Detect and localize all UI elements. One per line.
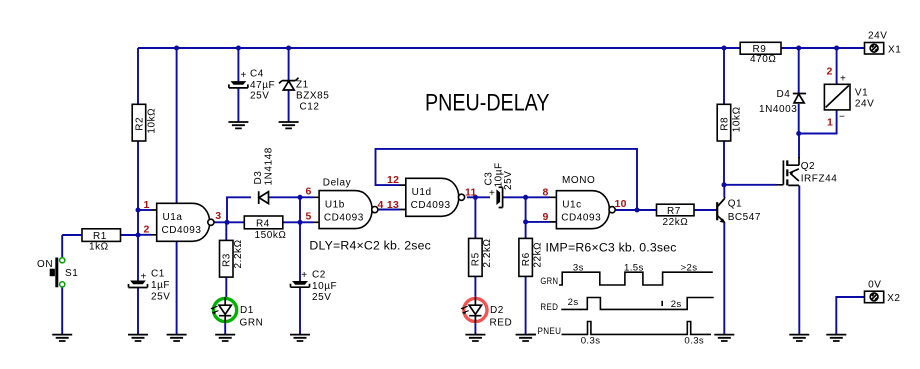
wire U1b pin5 stub — [300, 221, 314, 223]
resistor R1 — [82, 229, 121, 253]
svg-text:2: 2 — [144, 224, 150, 236]
wire pin9 node down to R6 — [525, 222, 527, 239]
svg-text:D1: D1 — [240, 305, 254, 316]
resistor R8 — [717, 104, 742, 141]
svg-text:2.2kΩ: 2.2kΩ — [482, 238, 493, 267]
svg-text:25V: 25V — [151, 292, 170, 303]
svg-text:R3: R3 — [222, 253, 233, 267]
wire U1b output to U1d pin13 — [376, 209, 399, 211]
timing label 2s right with tick — [661, 301, 663, 306]
svg-text:C2: C2 — [312, 270, 326, 281]
ground under C4 — [228, 122, 248, 128]
svg-text:S1: S1 — [65, 268, 78, 279]
op-amp U1d (NAND gate CD4093) — [399, 178, 465, 216]
resistor R2 — [132, 104, 157, 141]
junction rail-U1a — [174, 46, 179, 51]
wire U1c pin9 stub — [526, 221, 550, 223]
terminal X2 — [865, 279, 901, 304]
resistor R4 — [244, 216, 286, 241]
svg-text:R8: R8 — [720, 117, 731, 131]
resistor R5 — [469, 238, 494, 276]
svg-text:3s: 3s — [573, 262, 584, 273]
wire Q1 emitter to ground — [723, 223, 725, 335]
wire C2 to ground — [299, 288, 301, 335]
wire Q1 collector up to gate node — [723, 185, 725, 197]
ground under C1 — [128, 335, 148, 341]
svg-text:DLY=R4×C2 kb. 2sec: DLY=R4×C2 kb. 2sec — [309, 239, 431, 253]
svg-text:RED: RED — [540, 302, 558, 313]
wire C1 to ground — [137, 288, 139, 335]
wire V1 bottom to flyback node — [799, 110, 837, 134]
junction flyback node — [796, 131, 801, 136]
svg-text:24V: 24V — [855, 99, 874, 110]
svg-text:U1c: U1c — [562, 199, 581, 210]
svg-text:2s: 2s — [671, 299, 682, 310]
resistor R7 — [657, 204, 695, 228]
wire Z1 column — [288, 48, 290, 122]
junction rail-R8 — [722, 46, 727, 51]
svg-text:R6: R6 — [521, 252, 532, 266]
transistor Q1 BC547 — [716, 197, 762, 223]
wire R1 right to node — [120, 234, 138, 236]
svg-text:1kΩ: 1kΩ — [89, 242, 109, 253]
terminal X1 — [863, 31, 901, 56]
svg-text:U1a: U1a — [163, 212, 183, 223]
junction rail-Z1 — [286, 46, 291, 51]
diode D4 — [759, 89, 806, 115]
svg-text:11: 11 — [465, 186, 477, 198]
svg-text:2.2kΩ: 2.2kΩ — [233, 239, 244, 268]
svg-text:1: 1 — [144, 199, 150, 211]
wire R8 bottom to node — [723, 141, 725, 185]
svg-text:PNEU: PNEU — [538, 326, 562, 337]
wire R5 to D2 — [474, 276, 476, 297]
svg-text:GRN: GRN — [240, 318, 264, 329]
ground under C2 — [290, 335, 310, 341]
op-amp U1b (NAND gate CD4093) — [314, 191, 378, 229]
wire R4 to pin5 node — [283, 221, 300, 223]
wire 24V top rail — [138, 47, 863, 49]
svg-text:25V: 25V — [250, 91, 269, 102]
pushbutton S1 — [37, 258, 78, 288]
ground under S1 — [52, 335, 72, 341]
wire U1a VDD stub from rail — [176, 48, 178, 203]
svg-text:10µF: 10µF — [312, 281, 337, 292]
wire R6 to ground — [525, 276, 527, 334]
LED D1 — [210, 297, 263, 328]
junction pin5 node — [298, 220, 303, 225]
svg-text:1N4003: 1N4003 — [759, 104, 797, 115]
wire left column from rail to R2 — [137, 48, 139, 105]
svg-text:150kΩ: 150kΩ — [255, 230, 287, 241]
svg-text:D4: D4 — [777, 89, 791, 100]
svg-text:CD4093: CD4093 — [324, 212, 364, 223]
svg-text:+: + — [241, 70, 247, 81]
wire node to Q2 gate — [724, 184, 777, 186]
ground under Q2 — [789, 335, 809, 341]
junction rail-V1 — [834, 46, 839, 51]
capacitor C4 — [229, 69, 275, 102]
wire R3 column from node — [225, 222, 227, 297]
svg-text:CD4093: CD4093 — [561, 212, 601, 223]
diode D3 — [253, 147, 275, 204]
svg-text:10kΩ: 10kΩ — [147, 108, 158, 134]
svg-text:U1b: U1b — [325, 199, 345, 210]
zener Z1 — [279, 78, 329, 113]
junction rail-D4 — [796, 46, 801, 51]
wire C4 column — [237, 48, 239, 122]
wire R7 to Q1 base — [694, 209, 716, 211]
wire R8 top from rail — [723, 48, 725, 104]
op-amp U1c (NAND gate CD4093) — [550, 191, 616, 229]
svg-text:25V: 25V — [503, 171, 514, 190]
svg-text:10kΩ: 10kΩ — [732, 106, 743, 132]
wire S1 to ground — [61, 287, 63, 335]
svg-text:Delay: Delay — [323, 177, 351, 188]
svg-text:0.3s: 0.3s — [684, 336, 704, 347]
svg-text:U1d: U1d — [412, 187, 432, 198]
svg-text:R5: R5 — [471, 252, 482, 266]
timing diagram PNEU waveform — [528, 322, 711, 335]
wire R2 bottom to R1/pin2 node and C1 — [137, 141, 139, 281]
svg-text:22kΩ: 22kΩ — [663, 217, 689, 228]
junction Q1 collector node — [722, 182, 727, 187]
wire D4 column from rail — [798, 48, 800, 93]
wire Q2 source to ground — [798, 185, 800, 334]
wire U1a pin1 stub — [138, 209, 151, 211]
capacitor C2 — [291, 270, 338, 304]
wire D1 to ground — [224, 323, 226, 335]
wire U1c pin8 stub — [526, 196, 550, 198]
svg-text:CD4093: CD4093 — [411, 200, 451, 211]
wire C3 to pin8 node — [503, 196, 526, 198]
ground under Z1 — [279, 122, 299, 128]
svg-text:+: + — [301, 270, 307, 281]
ground under U1a — [167, 335, 187, 341]
svg-text:R4: R4 — [256, 218, 270, 229]
wire U1a output to R3/R4 node — [214, 221, 227, 223]
wire flyback node to Q2 drain — [798, 134, 800, 159]
ground under D1 — [215, 335, 235, 341]
svg-text:Q1: Q1 — [728, 199, 742, 210]
junction rail-C4 — [236, 46, 241, 51]
ground under Q1 — [714, 335, 734, 341]
wire node up to D3 row — [227, 197, 251, 222]
relay V1 — [824, 74, 874, 123]
svg-text:RED: RED — [490, 318, 513, 329]
svg-text:+: + — [141, 272, 147, 283]
svg-text:V1: V1 — [855, 88, 868, 99]
wire D2 to ground — [474, 323, 476, 335]
svg-text:C1: C1 — [151, 269, 165, 280]
svg-text:R2: R2 — [135, 117, 146, 131]
wire U1d out node down to R5 — [474, 197, 476, 238]
resistor R9 — [740, 42, 781, 65]
svg-text:22kΩ: 22kΩ — [532, 242, 543, 268]
svg-text:10: 10 — [615, 198, 627, 210]
wire pin6 node down to C2 — [299, 197, 301, 281]
svg-text:MONO: MONO — [562, 175, 595, 186]
svg-text:Q2: Q2 — [801, 161, 815, 172]
wire U1c output to R7 — [610, 209, 656, 211]
wire V1 top from rail — [836, 48, 838, 84]
wire U1d pin12 feedback loop — [376, 149, 638, 210]
svg-text:−: − — [839, 112, 845, 123]
junction pin8 node — [523, 195, 528, 200]
svg-text:9: 9 — [543, 211, 549, 223]
svg-text:+: + — [489, 188, 495, 199]
resistor R3 — [220, 239, 244, 277]
ground under D2 — [465, 335, 485, 341]
capacitor C3 — [484, 162, 515, 207]
wire X2 to ground — [836, 297, 864, 335]
resistor R6 — [519, 238, 544, 276]
wire node to R4 — [227, 221, 244, 223]
svg-text:R1: R1 — [93, 231, 107, 242]
junction U1c out node — [635, 208, 640, 213]
svg-text:PNEU-DELAY: PNEU-DELAY — [425, 90, 550, 117]
svg-text:1: 1 — [827, 117, 833, 129]
svg-text:ON: ON — [37, 259, 53, 270]
svg-text:BC547: BC547 — [728, 212, 761, 223]
svg-text:6: 6 — [306, 186, 312, 198]
svg-text:BZX85: BZX85 — [296, 91, 329, 102]
junction pin2-R1 — [136, 233, 141, 238]
wire R1 left to S1 — [62, 235, 81, 257]
junction U1d out node — [473, 195, 478, 200]
svg-text:0V: 0V — [868, 279, 881, 290]
ground under X2 — [826, 335, 846, 341]
ground under R6 — [516, 335, 536, 341]
wire D4 anode to flyback node — [798, 104, 800, 134]
svg-text:GRN: GRN — [540, 276, 558, 287]
capacitor C1 — [129, 269, 171, 303]
timing diagram GRN waveform — [559, 272, 713, 285]
transistor Q2 IRFZ44 — [777, 157, 838, 185]
svg-text:25V: 25V — [312, 292, 331, 303]
junction pin9 node — [523, 219, 528, 224]
svg-text:>2s: >2s — [681, 262, 698, 273]
svg-text:IRFZ44: IRFZ44 — [801, 174, 838, 185]
svg-text:IMP=R6×C3 kb. 0.3sec: IMP=R6×C3 kb. 0.3sec — [546, 241, 677, 255]
wire U1a VSS stub to ground — [176, 241, 178, 334]
svg-text:3: 3 — [215, 210, 221, 222]
junction pin6 node — [298, 195, 303, 200]
svg-text:8: 8 — [543, 187, 549, 199]
wire pin8 node down to pin9 node — [525, 197, 527, 222]
LED D2 — [461, 297, 513, 328]
junction pin1 — [136, 208, 141, 213]
svg-text:2: 2 — [827, 66, 833, 78]
svg-text:X1: X1 — [888, 44, 901, 55]
wire D3 anode to pin6 node — [269, 196, 300, 198]
svg-text:1N4148: 1N4148 — [264, 147, 275, 185]
svg-text:4 13: 4 13 — [378, 199, 400, 211]
svg-text:C4: C4 — [250, 69, 264, 80]
svg-text:D3: D3 — [253, 171, 264, 185]
svg-text:Z1: Z1 — [296, 80, 309, 91]
svg-text:+: + — [840, 74, 846, 85]
svg-text:C12: C12 — [300, 102, 320, 113]
op-amp U1a (NAND gate CD4093) — [151, 203, 214, 241]
junction U1a out node — [225, 220, 230, 225]
svg-text:X2: X2 — [887, 293, 900, 304]
svg-text:470Ω: 470Ω — [750, 54, 776, 65]
svg-text:1.5s: 1.5s — [624, 262, 644, 273]
svg-text:CD4093: CD4093 — [162, 225, 202, 236]
svg-text:12: 12 — [387, 174, 399, 186]
svg-text:47µF: 47µF — [250, 80, 275, 91]
wire U1d output to C3 — [467, 196, 490, 198]
svg-text:R7: R7 — [667, 206, 681, 217]
wire U1a pin2 stub — [138, 234, 151, 236]
wire U1b pin6 stub — [300, 196, 314, 198]
svg-text:5: 5 — [306, 211, 312, 223]
svg-text:24V: 24V — [868, 31, 887, 42]
timing diagram RED waveform — [561, 298, 713, 310]
svg-text:2s: 2s — [568, 297, 579, 308]
svg-text:1µF: 1µF — [151, 280, 170, 291]
svg-text:D2: D2 — [490, 305, 504, 316]
svg-text:0.3s: 0.3s — [581, 336, 601, 347]
